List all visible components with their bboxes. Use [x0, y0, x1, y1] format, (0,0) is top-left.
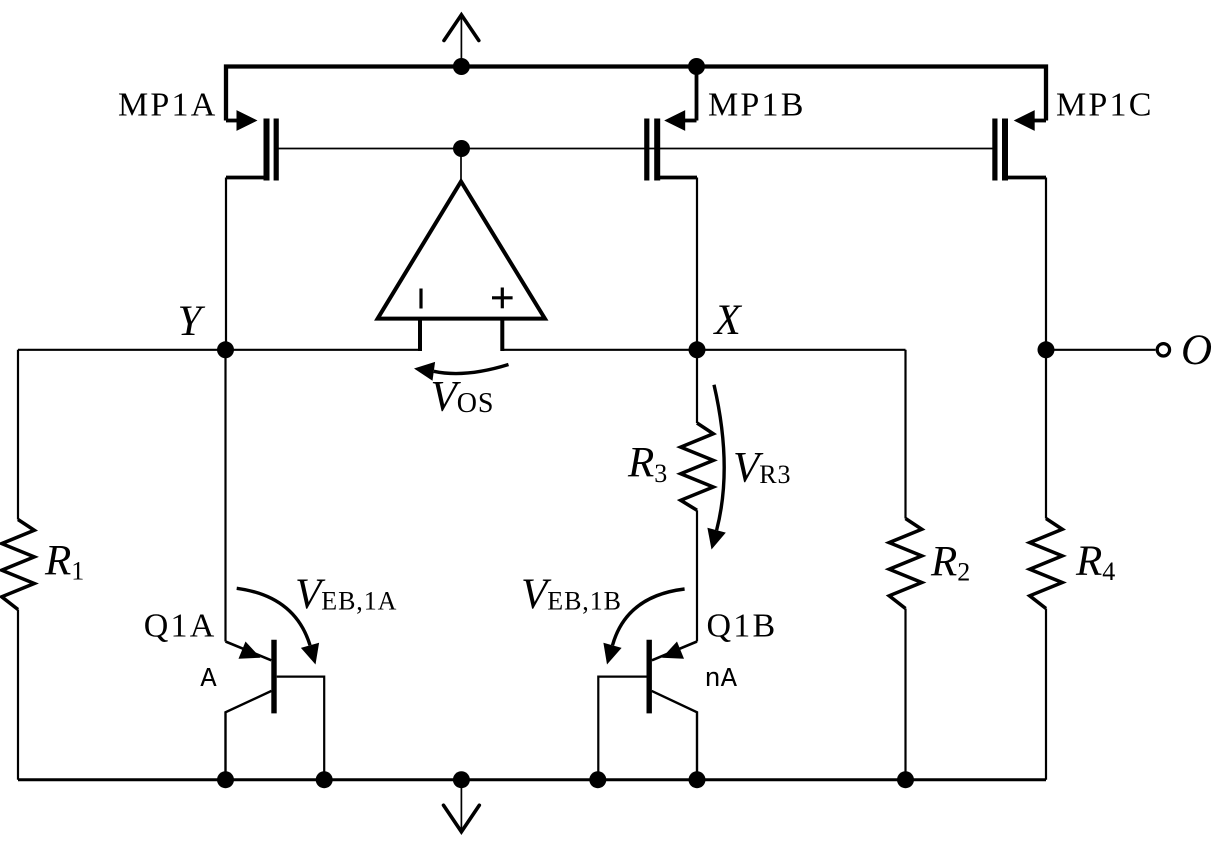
- svg-text:nA: nA: [705, 665, 738, 695]
- svg-text:A: A: [200, 665, 217, 695]
- svg-text:Y: Y: [178, 298, 206, 345]
- svg-text:MP1A: MP1A: [118, 87, 218, 124]
- svg-text:X: X: [713, 297, 743, 344]
- svg-text:O: O: [1181, 327, 1212, 374]
- svg-text:MP1C: MP1C: [1056, 87, 1154, 124]
- svg-text:MP1B: MP1B: [708, 87, 806, 124]
- svg-text:Q1B: Q1B: [707, 608, 778, 645]
- svg-text:Q1A: Q1A: [144, 608, 217, 645]
